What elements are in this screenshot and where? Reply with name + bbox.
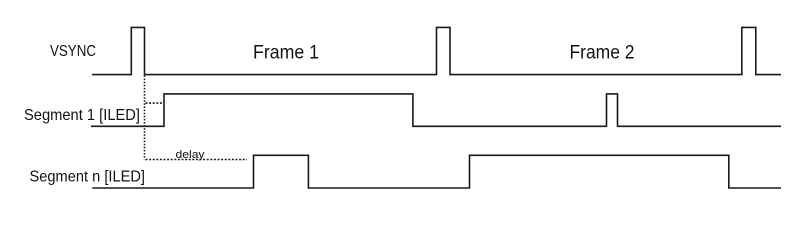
svg-text:Frame 2: Frame 2 [570, 42, 635, 63]
svg-text:VSYNC: VSYNC [50, 43, 96, 60]
svg-text:Segment 1 [ILED]: Segment 1 [ILED] [24, 107, 140, 124]
svg-text:Segment n [ILED]: Segment n [ILED] [30, 169, 146, 186]
svg-text:delay: delay [176, 149, 206, 161]
svg-text:Frame 1: Frame 1 [253, 43, 319, 64]
